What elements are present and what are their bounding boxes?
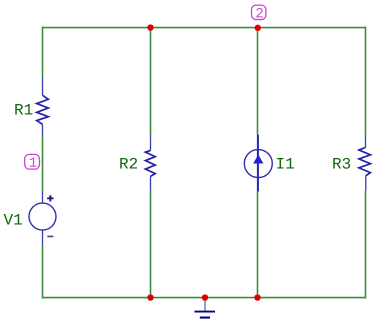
wire right upper	[365, 27, 367, 135]
label R3	[333, 158, 350, 169]
wire I1 branch lower	[257, 192, 259, 298]
junction dot top R2	[147, 24, 153, 30]
ground	[195, 298, 216, 318]
wire R2 branch upper	[150, 28, 152, 134]
junction dot bottom I1	[254, 294, 260, 300]
node 1 badge	[25, 154, 40, 169]
wire bottom	[43, 297, 366, 299]
resistor R3	[365, 135, 367, 191]
wire I1 branch upper	[257, 28, 259, 135]
wire R2 branch lower	[150, 190, 152, 298]
label R1	[15, 104, 32, 115]
junction dot bottom R2	[147, 294, 153, 300]
voltage source V1	[29, 191, 56, 246]
label I1	[277, 158, 294, 169]
current source I1	[244, 135, 272, 192]
junction dot ground	[202, 294, 208, 300]
wire right lower	[365, 191, 367, 299]
label R2	[120, 158, 137, 169]
label V1	[4, 214, 22, 225]
resistor R2	[150, 134, 152, 190]
resistor R1	[42, 78, 44, 137]
wire left lower	[42, 246, 44, 299]
wire top	[43, 27, 366, 29]
wire left upper	[42, 27, 44, 78]
node 2 badge	[252, 5, 266, 19]
junction dot top I1	[255, 25, 261, 31]
wire left mid (node 1 net)	[42, 136, 44, 191]
